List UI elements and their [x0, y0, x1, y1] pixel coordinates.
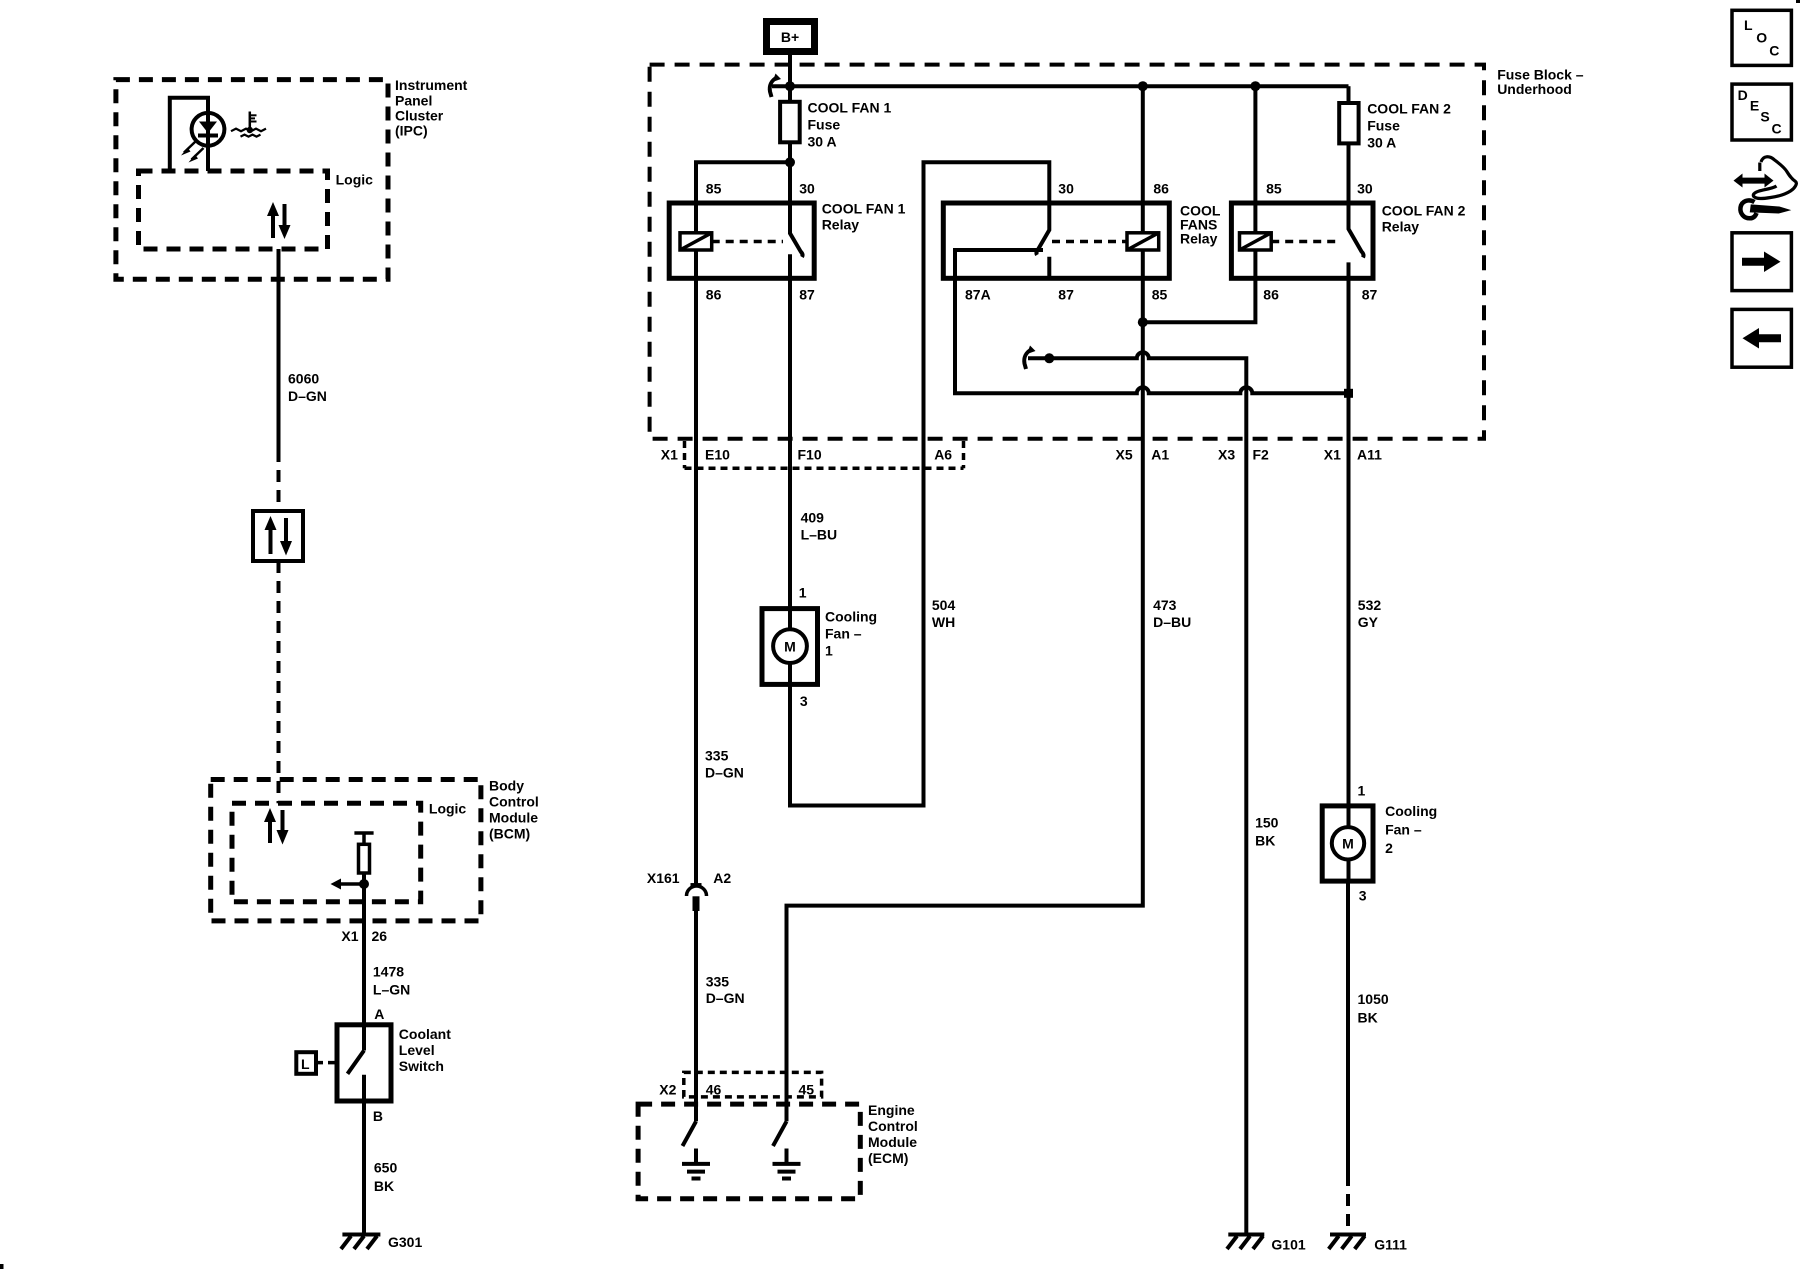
- switch ECM pin46 to ground: [682, 1121, 710, 1178]
- svg-text:Switch: Switch: [399, 1058, 444, 1074]
- svg-text:Relay: Relay: [822, 217, 860, 233]
- svg-text:F2: F2: [1253, 447, 1270, 463]
- wire 87 branch to F2 / 150 BK (hops over 473): [1028, 352, 1246, 1234]
- relay COOL FANS Relay box: [943, 203, 1169, 278]
- wire link fans85 to relay2 86: [1143, 250, 1256, 322]
- svg-text:D–GN: D–GN: [706, 990, 745, 1006]
- svg-text:C: C: [1772, 120, 1782, 136]
- svg-text:30 A: 30 A: [1367, 135, 1396, 151]
- wire fan1 pin3 loop 504 WH to fans relay 30: [790, 162, 1049, 805]
- label COOL FAN 1 Fuse: [808, 99, 892, 149]
- svg-text:X161: X161: [647, 870, 680, 886]
- battery feed B+: [767, 22, 815, 52]
- coolant level icon IPC: [231, 112, 266, 137]
- svg-text:409: 409: [801, 509, 825, 525]
- node rail-fans relay 86: [1138, 81, 1148, 91]
- svg-text:Level: Level: [399, 1042, 435, 1058]
- node rail-fuse1: [785, 81, 795, 91]
- svg-text:30: 30: [1058, 181, 1074, 197]
- svg-text:Module: Module: [868, 1134, 917, 1150]
- label 409 L-BU: [801, 509, 838, 542]
- svg-text:Cooling: Cooling: [825, 609, 877, 625]
- svg-text:D–GN: D–GN: [705, 764, 744, 780]
- svg-text:L: L: [1744, 17, 1753, 33]
- label 150 BK: [1255, 814, 1279, 848]
- svg-text:86: 86: [706, 287, 722, 303]
- svg-text:335: 335: [706, 973, 730, 989]
- splice hook at 87 branch: [1024, 346, 1035, 370]
- connector row X2 46 45 (dotted): [684, 1072, 822, 1097]
- svg-text:G301: G301: [388, 1234, 422, 1250]
- svg-text:E10: E10: [705, 446, 730, 462]
- svg-text:BK: BK: [1255, 833, 1275, 849]
- svg-text:335: 335: [705, 748, 729, 764]
- switch relay2: [1349, 203, 1364, 278]
- svg-text:COOL FAN 1: COOL FAN 1: [822, 201, 906, 217]
- motor Cooling Fan 2: [1322, 806, 1373, 881]
- module box Fuse Block - Underhood: [650, 65, 1484, 439]
- fuse COOL FAN 2 30A: [1339, 86, 1358, 203]
- label Cooling Fan 1: [825, 609, 877, 659]
- svg-text:F10: F10: [798, 446, 822, 462]
- motor Cooling Fan 1: [762, 609, 818, 685]
- svg-text:1: 1: [1358, 783, 1366, 799]
- svg-text:Instrument: Instrument: [395, 77, 468, 93]
- label Fuse Block Underhood: [1497, 66, 1584, 97]
- module box Body Control Module (BCM): [211, 780, 481, 921]
- up/down arrows IPC logic: [267, 202, 291, 239]
- icon forward arrow box: [1732, 233, 1791, 291]
- label 335 D-GN upper: [705, 748, 744, 781]
- svg-text:X5: X5: [1116, 447, 1133, 463]
- svg-text:X1: X1: [661, 446, 678, 462]
- svg-text:A2: A2: [713, 870, 731, 886]
- label COOL FAN 1 Relay: [822, 201, 906, 233]
- svg-text:A: A: [374, 1006, 384, 1022]
- wire LED loop: [170, 96, 208, 171]
- relay COOL FAN 2 Relay box: [1231, 203, 1373, 278]
- coil relay1: [680, 233, 712, 250]
- svg-text:Engine: Engine: [868, 1102, 915, 1118]
- switch ECM pin45 to ground: [773, 1121, 801, 1178]
- fuse COOL FAN 1 30A: [780, 102, 800, 143]
- icon LOC box: [1732, 10, 1791, 65]
- relay COOL FAN 1 Relay box: [669, 203, 814, 278]
- label IPC: [395, 77, 468, 139]
- svg-text:30: 30: [1357, 181, 1373, 197]
- label 1050 BK: [1358, 991, 1389, 1025]
- pin X1 26 BCM: [341, 928, 387, 944]
- svg-text:(BCM): (BCM): [489, 825, 530, 841]
- svg-text:M: M: [784, 639, 796, 655]
- svg-text:85: 85: [1266, 181, 1282, 197]
- label 650 BK: [374, 1160, 398, 1194]
- wire 87A to relay2 87 (hops over 473 and 150): [955, 278, 1349, 393]
- module box Engine Control Module (ECM): [638, 1104, 860, 1199]
- wire fans relay 85 down 473: [787, 250, 1143, 1121]
- label ECM: [868, 1102, 918, 1166]
- coil fans relay: [1127, 233, 1159, 250]
- svg-text:87: 87: [799, 287, 815, 303]
- wire 6060 D-GN solid from IPC: [277, 249, 281, 450]
- label 532 GY: [1358, 597, 1382, 630]
- ground G111: [1329, 1235, 1366, 1250]
- svg-text:1: 1: [825, 643, 833, 659]
- svg-text:B+: B+: [781, 29, 799, 45]
- svg-text:30: 30: [799, 181, 815, 197]
- wire BCM output to coolant switch: [362, 873, 366, 1025]
- label 335 D-GN lower: [706, 973, 745, 1006]
- switch fans relay: [1036, 203, 1049, 278]
- wire relay1 87 to F10 / 409 to fan1: [788, 278, 792, 608]
- wire 1050 BK solid: [1346, 881, 1350, 1174]
- label BCM: [489, 777, 539, 841]
- svg-text:473: 473: [1153, 597, 1177, 613]
- stray mark top right: [1796, 0, 1800, 3]
- svg-text:87: 87: [1362, 287, 1378, 303]
- wire 6060 dashed to serial-data box: [277, 450, 281, 511]
- svg-text:1: 1: [799, 584, 807, 600]
- svg-text:A6: A6: [934, 446, 952, 462]
- node BCM output junction: [359, 879, 369, 889]
- component Coolant Level Switch: [337, 1025, 391, 1101]
- control dashed relay1: [712, 240, 783, 244]
- svg-text:(ECM): (ECM): [868, 1150, 908, 1166]
- svg-text:3: 3: [1359, 888, 1367, 904]
- icon back arrow box: [1732, 309, 1791, 367]
- connector X161 A2 inline: [687, 885, 707, 911]
- svg-text:X1: X1: [1324, 447, 1341, 463]
- node 87 junction: [1044, 353, 1054, 363]
- svg-text:COOL FAN 2: COOL FAN 2: [1367, 101, 1451, 117]
- ground G101: [1227, 1235, 1264, 1250]
- label 473 D-BU: [1153, 597, 1191, 630]
- svg-text:Logic: Logic: [429, 800, 467, 816]
- svg-text:Underhood: Underhood: [1497, 81, 1572, 97]
- wire relay1 85 branch: [696, 162, 790, 233]
- svg-text:Relay: Relay: [1382, 218, 1420, 234]
- node 85-86 link: [1138, 317, 1148, 327]
- up/down arrows BCM logic: [264, 808, 289, 845]
- control dashed relay2: [1271, 240, 1341, 244]
- svg-text:L: L: [301, 1056, 310, 1072]
- svg-text:S: S: [1760, 109, 1769, 125]
- wire fuse1 to relay1 pin30: [788, 142, 792, 203]
- label Cooling Fan 2: [1385, 803, 1437, 856]
- wire fans relay 86 from rail: [1141, 86, 1145, 233]
- icon DESC box: [1732, 84, 1791, 140]
- contact 87A fans relay: [955, 250, 1043, 278]
- wire relay2 85 from rail: [1253, 86, 1257, 233]
- svg-text:Coolant: Coolant: [399, 1026, 451, 1042]
- svg-text:Control: Control: [868, 1118, 918, 1134]
- module box Instrument Panel Cluster (IPC): [116, 80, 388, 280]
- svg-text:D: D: [1738, 87, 1748, 103]
- indicator lamp (LED) IPC: [181, 113, 224, 163]
- svg-text:B: B: [373, 1108, 383, 1124]
- svg-text:X2: X2: [659, 1081, 676, 1097]
- svg-text:85: 85: [1152, 287, 1168, 303]
- sense arrow BCM: [331, 879, 365, 890]
- coil relay2: [1240, 233, 1272, 250]
- svg-text:X1: X1: [341, 928, 358, 944]
- svg-text:COOL FAN 2: COOL FAN 2: [1382, 202, 1466, 218]
- svg-text:G101: G101: [1271, 1237, 1305, 1253]
- wire dashed L square to switch: [316, 1061, 337, 1065]
- svg-text:Cluster: Cluster: [395, 108, 444, 124]
- svg-text:Logic: Logic: [336, 171, 374, 187]
- labels connector row right: [1116, 447, 1383, 463]
- wire relay1 86 to E10: [694, 250, 698, 884]
- node fuse1 out: [785, 157, 795, 167]
- svg-text:3: 3: [800, 693, 808, 709]
- svg-text:45: 45: [799, 1081, 815, 1097]
- wire B+ down: [788, 55, 792, 102]
- svg-text:150: 150: [1255, 814, 1279, 830]
- ground G301: [341, 1235, 380, 1250]
- svg-text:86: 86: [1153, 181, 1169, 197]
- svg-text:30 A: 30 A: [808, 133, 837, 149]
- svg-text:COOL FAN 1: COOL FAN 1: [808, 99, 892, 115]
- label COOL FAN 2 Relay: [1382, 202, 1466, 234]
- label 504 WH: [932, 597, 956, 630]
- svg-text:Cooling: Cooling: [1385, 803, 1437, 819]
- svg-text:O: O: [1756, 30, 1767, 46]
- svg-text:504: 504: [932, 597, 956, 613]
- svg-text:M: M: [1342, 836, 1354, 852]
- serial data up/down arrows box: [253, 511, 303, 561]
- switch relay1: [790, 203, 803, 278]
- labels X161 A2: [647, 870, 732, 886]
- svg-text:L–BU: L–BU: [801, 526, 838, 542]
- svg-text:BK: BK: [374, 1178, 394, 1194]
- node rail-relay2 85: [1250, 81, 1260, 91]
- wire B+ rail: [772, 84, 1349, 88]
- svg-text:(IPC): (IPC): [395, 123, 428, 139]
- labels X2 46 45: [659, 1081, 814, 1097]
- level sensor L square: [296, 1052, 316, 1074]
- svg-text:26: 26: [372, 928, 388, 944]
- svg-text:1050: 1050: [1358, 991, 1389, 1007]
- svg-text:Relay: Relay: [1180, 230, 1218, 246]
- svg-text:46: 46: [706, 1081, 722, 1097]
- svg-text:A11: A11: [1357, 447, 1382, 463]
- icon harness routing (double arrow, outline, wrench): [1734, 157, 1797, 219]
- svg-text:BK: BK: [1358, 1009, 1378, 1025]
- svg-text:Fuse: Fuse: [808, 116, 841, 132]
- driver element BCM (bar + resistor): [354, 833, 373, 873]
- label COOL FAN 2 Fuse: [1367, 101, 1451, 151]
- svg-text:GY: GY: [1358, 614, 1379, 630]
- svg-text:D–BU: D–BU: [1153, 614, 1191, 630]
- svg-text:87A: 87A: [965, 287, 991, 303]
- svg-text:Fan –: Fan –: [1385, 822, 1422, 838]
- wire dashed from box to BCM: [277, 561, 281, 803]
- svg-text:C: C: [1769, 42, 1779, 58]
- svg-text:Fuse Block –: Fuse Block –: [1497, 66, 1584, 82]
- wire 1050 BK dashed to G111: [1346, 1174, 1350, 1232]
- svg-text:D–GN: D–GN: [288, 388, 327, 404]
- splice hook at B+ rail: [770, 74, 781, 98]
- svg-text:G111: G111: [1374, 1237, 1407, 1253]
- stray mark bottom left: [0, 1264, 4, 1269]
- svg-text:532: 532: [1358, 597, 1382, 613]
- wire relay2 87 down 532 GY: [1347, 278, 1351, 806]
- connector row X1 E10 F10 A6 (dotted): [685, 441, 964, 468]
- svg-text:Fuse: Fuse: [1367, 118, 1400, 134]
- svg-text:87: 87: [1058, 287, 1074, 303]
- svg-text:Fan –: Fan –: [825, 626, 862, 642]
- svg-text:L–GN: L–GN: [373, 981, 410, 997]
- svg-text:WH: WH: [932, 614, 955, 630]
- logic box BCM: [232, 803, 421, 902]
- logic box IPC: [139, 171, 328, 249]
- label 6060 D-GN: [288, 370, 327, 404]
- label 1478 L-GN: [373, 964, 410, 998]
- wire 650 BK: [362, 1101, 366, 1235]
- labels connector row left: [661, 446, 953, 462]
- svg-text:X3: X3: [1218, 447, 1235, 463]
- node 87A link to 532: [1344, 389, 1353, 398]
- svg-text:650: 650: [374, 1160, 398, 1176]
- wire 335 D-GN lower to ECM 46: [694, 911, 698, 1121]
- svg-text:Control: Control: [489, 793, 539, 809]
- svg-text:A1: A1: [1151, 447, 1169, 463]
- svg-text:E: E: [1750, 97, 1759, 113]
- svg-text:1478: 1478: [373, 964, 404, 980]
- svg-text:86: 86: [1263, 287, 1279, 303]
- control dashed fans relay: [1052, 240, 1127, 244]
- svg-text:6060: 6060: [288, 370, 319, 386]
- label Coolant Level Switch: [399, 1026, 451, 1074]
- svg-text:Body: Body: [489, 777, 524, 793]
- label COOL FANS Relay: [1180, 202, 1221, 246]
- svg-text:2: 2: [1385, 840, 1393, 856]
- svg-text:Panel: Panel: [395, 92, 432, 108]
- svg-text:Module: Module: [489, 809, 538, 825]
- svg-text:85: 85: [706, 181, 722, 197]
